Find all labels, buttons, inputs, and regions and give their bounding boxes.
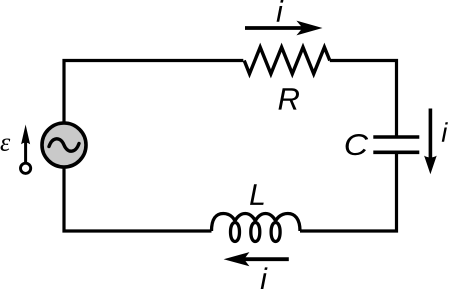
- current arrow i (bottom, pointing left): [244, 257, 289, 261]
- capacitor C top plate: [373, 135, 419, 139]
- wire right lower (right vertical to bottom corner + bottom horizontal to inductor): [300, 154, 397, 232]
- label i (right): [442, 122, 448, 142]
- inductor L (coil): [212, 214, 301, 242]
- emf arrow (pointing up): [24, 141, 27, 163]
- label i (bottom): [261, 267, 268, 289]
- label i (top): [277, 0, 284, 22]
- wire bottom-left (bottom horizontal from inductor + left vertical lower): [64, 167, 212, 231]
- capacitor C bottom plate: [373, 151, 419, 155]
- AC source sine wave: [49, 139, 79, 151]
- label C: [346, 134, 369, 155]
- AC source (circle): [42, 123, 86, 167]
- resistor R: [244, 47, 330, 74]
- label R: [279, 88, 299, 109]
- current arrow i (top, pointing right): [245, 26, 305, 30]
- emf label epsilon: [1, 138, 11, 151]
- wire top-right (top horizontal from resistor + right vertical upper): [330, 61, 397, 137]
- current arrow i (right of capacitor, pointing down): [429, 109, 433, 163]
- wire top-left (left vertical upper + top horizontal to resistor): [64, 61, 243, 124]
- label L: [250, 184, 264, 205]
- emf arrow tail circle: [21, 163, 31, 173]
